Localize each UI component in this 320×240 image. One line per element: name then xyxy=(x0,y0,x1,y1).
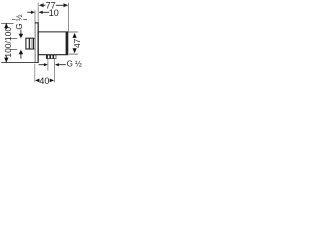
svg-text:47: 47 xyxy=(72,38,82,48)
dimension 40: left extension line xyxy=(34,64,36,83)
svg-text:G ½: G ½ xyxy=(67,60,82,69)
dimension 100: up arrow xyxy=(4,23,8,28)
G half left: down arrow xyxy=(19,34,24,39)
dimension 77: line segment right xyxy=(56,4,64,6)
dimension 77: right arrow xyxy=(64,3,69,7)
nipple hatch bar 3 xyxy=(53,55,55,59)
escutcheon plate side view xyxy=(35,23,38,63)
svg-text:G ½: G ½ xyxy=(15,14,24,29)
G half right dim: left tail from wall xyxy=(39,64,45,66)
connector neck bottom line xyxy=(34,48,36,50)
dimension 10: right tail xyxy=(42,11,49,13)
dimension 10: left tail xyxy=(27,11,31,13)
dimension 100: bottom extension line (long, plate bottom) xyxy=(1,62,38,64)
dimension 47: down arrow xyxy=(73,48,77,53)
dimension 40: right arrow xyxy=(50,79,54,83)
nipple hatch bar 2 xyxy=(49,55,51,59)
dimension 100: vertical line xyxy=(5,23,7,29)
dimension 47: top extension line xyxy=(68,31,78,33)
dimension 100: down arrow xyxy=(4,58,8,63)
nipple hatch bar 1 xyxy=(46,55,48,59)
G half left: up arrow xyxy=(19,50,24,55)
dimension 40: left arrow xyxy=(35,79,39,83)
G half right dim: right-pointing arrow xyxy=(44,63,48,66)
G half left: leader line above down arrow xyxy=(20,30,22,34)
G half right dim: extension line B (continues down for 40 dim) xyxy=(54,59,56,83)
front view square: left edge (wall line) xyxy=(37,32,39,55)
G half right dim: extension line A xyxy=(47,59,49,71)
background xyxy=(0,0,88,88)
svg-text:10: 10 xyxy=(49,8,59,18)
svg-text:100/100: 100/100 xyxy=(3,27,13,58)
dimension 10: right-pointing arrow xyxy=(31,11,35,14)
G half left: leader line below up arrow xyxy=(20,54,22,59)
dimension 47: bottom extension line xyxy=(69,53,78,55)
G half left: top extension line xyxy=(10,37,18,39)
G half right dim: left-pointing arrow xyxy=(55,63,59,66)
svg-text:40: 40 xyxy=(39,76,49,86)
front view square: top edge xyxy=(38,31,68,33)
dimension 77: left arrow xyxy=(39,3,44,7)
dimension 47: up arrow xyxy=(73,33,77,38)
dimension 100: top extension line xyxy=(1,22,13,24)
extension line wall (x38.2) to top dims xyxy=(37,3,39,23)
G half label left: dash right of text xyxy=(23,19,27,21)
front view square: thick right edge xyxy=(66,32,69,55)
plate wall-side dark edge xyxy=(37,23,39,63)
extension line left (x35, plate front face, top) xyxy=(34,10,36,22)
connector neck top line xyxy=(34,38,36,40)
bottom nipple (hatched outlet, below square) xyxy=(46,55,56,58)
G half left: bottom extension line xyxy=(10,49,18,51)
plate top cap xyxy=(35,22,39,24)
connector hatch stripe 2 xyxy=(31,38,33,49)
connector hatch stripe 1 xyxy=(28,38,30,49)
dimension 10: left-pointing arrow xyxy=(39,11,43,14)
dimension 77: line segment left xyxy=(43,4,45,6)
G half label left: dash left of text xyxy=(12,19,16,21)
connector block (hatched nut, side view) xyxy=(26,38,34,49)
dimension 100/100: vertical line lower stub xyxy=(5,56,7,63)
extension line right (x68.4) for 77 dim xyxy=(67,3,69,32)
G half right dim: right tail xyxy=(59,64,66,66)
front view square: bottom edge xyxy=(38,54,68,56)
